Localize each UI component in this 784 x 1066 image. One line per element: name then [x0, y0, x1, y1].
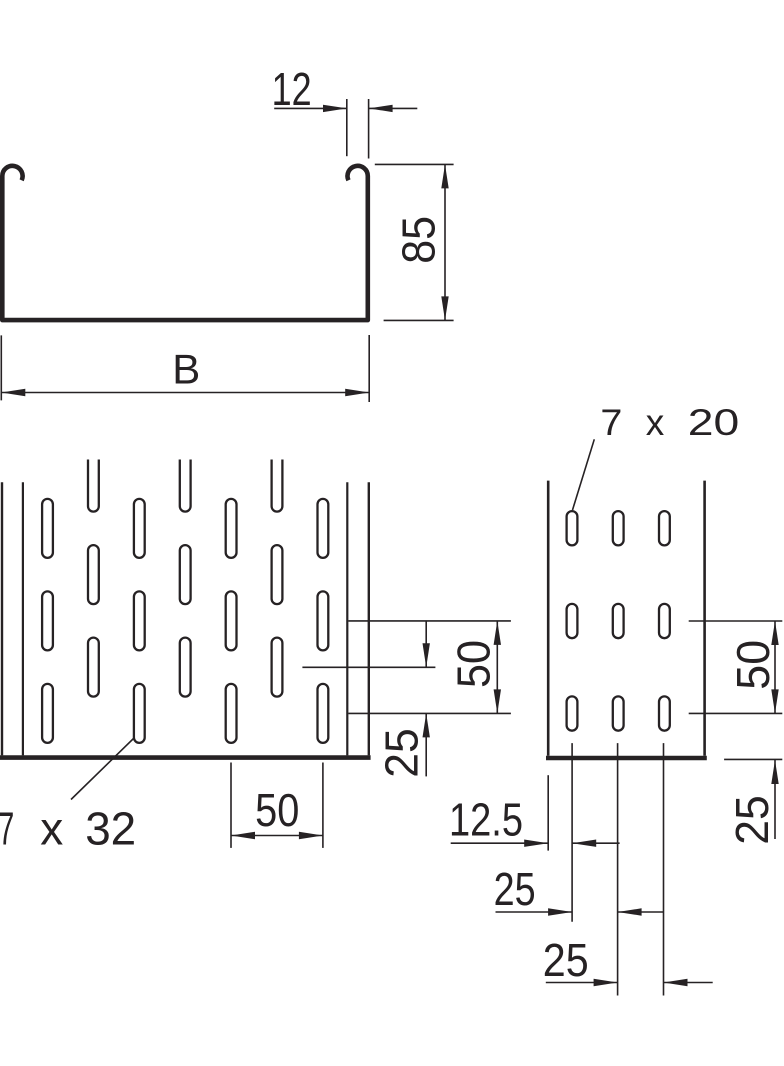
fig3 50 arrowhead down: [771, 689, 778, 713]
arrowhead up 85: [441, 164, 448, 188]
fig2 25-dim arrowhead down: [423, 643, 430, 667]
slot 7x32 colB1 row1: [88, 545, 99, 604]
slot 7x32 colB3 row2: [272, 638, 283, 697]
slot 7x32 colA1 row1: [42, 499, 53, 558]
svg-text:25: 25: [726, 795, 778, 845]
left extension line of B dim: [0, 335, 2, 400]
fig3 left edge: [547, 481, 550, 756]
fig2 right bend line: [346, 482, 348, 755]
slot 7x32 colA1 row3: [42, 684, 53, 743]
fig2 50-dim line: [496, 621, 498, 714]
dim line of B: [1, 392, 369, 394]
dim line of 85: [444, 164, 446, 320]
slot 7x32 colA2 row1: [134, 499, 145, 558]
extension line right of 12 dim: [368, 99, 370, 159]
fig2 left outer edge: [1, 482, 3, 755]
fig2 centerline of offset slot row: [302, 666, 435, 668]
slot 7x20 col2 row1: [613, 511, 624, 545]
slot 7x32 colA3 row1: [226, 499, 237, 558]
fig3 50-dim line: [774, 621, 776, 713]
fig2 25-dim upper shaft: [425, 621, 427, 667]
12.5-dim right shaft: [572, 842, 619, 844]
slot 7x20 col3 row3: [659, 696, 670, 730]
fig3 ext line slot col3: [663, 743, 665, 995]
svg-text:50: 50: [447, 640, 499, 688]
fig3 ext line slot col1: [571, 743, 573, 922]
slot 7x32 colA1 row2: [42, 591, 53, 650]
slot 7x20 col1 row3: [567, 696, 578, 730]
fig2 bottom 50 arrowhead right: [299, 832, 323, 839]
svg-text:25: 25: [376, 728, 428, 778]
25-dim-2 right shaft: [664, 982, 713, 984]
25-dim-1 arrowhead left: [618, 908, 642, 915]
slot 7x32 colB3 row1: [272, 545, 283, 604]
fig2 bottom ext line col7: [322, 763, 324, 848]
fig3 50 arrowhead up: [771, 621, 778, 645]
cable tray cross-section profile (U-channel with curled lips): [2, 166, 368, 320]
slot 7x32 colA3 row3: [226, 684, 237, 743]
fig2 25-dim arrowhead up: [423, 713, 430, 737]
fig3 bottom edge: [546, 756, 707, 761]
12.5 arrowhead right: [524, 840, 548, 847]
svg-text:x: x: [646, 402, 665, 443]
slot 7x32 colA2 row2: [134, 591, 145, 650]
fig3 right edge: [703, 481, 706, 756]
fig2 right outer edge: [368, 482, 370, 755]
svg-text:12.5: 12.5: [449, 794, 523, 846]
25-dim-1 left shaft: [496, 911, 572, 913]
25-dim-1 right shaft: [618, 911, 664, 913]
svg-text:7: 7: [0, 802, 14, 854]
fig2 extension line slot-row2 centerline: [348, 620, 511, 622]
fig2 bottom 50-dim line: [231, 835, 323, 837]
slot 7x20 col2 row2: [613, 604, 624, 638]
arrowhead left toward 12 right limit: [369, 105, 393, 112]
top extension line of 85 dim: [375, 163, 454, 165]
arrowhead right toward 12 left limit: [323, 105, 347, 112]
fig2 25-dim lower shaft: [425, 713, 427, 776]
fig3 25 arrowhead up: [771, 760, 778, 784]
fig3 ext line slot col2: [617, 743, 619, 995]
slot 7x32 colB2 row2: [180, 638, 191, 697]
fig3 bottom-edge ext line right: [724, 758, 782, 760]
fig2 left bend line: [22, 482, 24, 755]
fig3 25-dim shaft: [774, 760, 776, 839]
arrowhead down 85: [441, 296, 448, 320]
slot 7x20 col1 row2: [567, 604, 578, 638]
slot 7x20 col2 row3: [613, 696, 624, 730]
fig2 extension line slot-row3 centerline: [348, 712, 511, 714]
25-dim-2 left shaft: [546, 982, 617, 984]
slot 7x32 colB1 row2: [88, 638, 99, 697]
svg-text:32: 32: [85, 802, 136, 854]
25-dim-1 arrowhead right: [548, 908, 572, 915]
svg-text:25: 25: [494, 863, 536, 915]
svg-text:25: 25: [543, 934, 589, 986]
fig3 ext line row3 centerline: [689, 712, 783, 714]
fig2 bottom 50 arrowhead left: [231, 832, 255, 839]
slot 7x32 colA4 row1: [318, 499, 329, 558]
dim line left segment of 12: [274, 107, 346, 109]
fig2 bottom edge: [0, 755, 371, 760]
slot 7x32 colA2 row3: [134, 684, 145, 743]
fig3 ext line left edge: [547, 775, 549, 850]
leader line to 7x32 slot: [71, 739, 134, 800]
fig3 ext line row2 centerline: [689, 620, 783, 622]
12.5-dim left shaft: [451, 842, 548, 844]
slot 7x32 colA4 row3: [318, 684, 329, 743]
svg-text:x: x: [40, 802, 63, 854]
fig2 50-dim arrowhead up: [494, 621, 501, 645]
arrowhead right B: [345, 389, 369, 396]
slot 7x20 col3 row2: [659, 604, 670, 638]
slot 7x32 colB1 row0 (cut at top): [88, 460, 99, 512]
12.5 arrowhead left: [572, 840, 596, 847]
svg-text:50: 50: [727, 640, 779, 690]
right extension line of B dim: [368, 335, 370, 402]
slot 7x32 colB2 row0 (cut at top): [180, 460, 191, 512]
25-dim-2 arrowhead right: [594, 979, 618, 986]
25-dim-2 arrowhead left: [664, 979, 688, 986]
svg-text:85: 85: [393, 216, 445, 264]
dim line right segment of 12: [369, 107, 417, 109]
fig2 50-dim arrowhead down: [494, 689, 501, 713]
svg-text:B: B: [172, 346, 200, 393]
svg-text:20: 20: [688, 402, 740, 443]
arrowhead left B: [1, 389, 25, 396]
extension line left of 12 dim: [346, 99, 348, 156]
leader line to 7x20 slot: [573, 439, 595, 510]
slot 7x20 col1 row1: [567, 511, 578, 545]
slot 7x32 colA4 row2: [318, 591, 329, 650]
svg-text:50: 50: [255, 784, 299, 836]
svg-text:7: 7: [600, 402, 622, 443]
fig2 bottom ext line col5: [230, 763, 232, 848]
slot 7x32 colA3 row2: [226, 591, 237, 650]
slot 7x32 colB3 row0 (cut at top): [272, 460, 283, 512]
svg-text:12: 12: [272, 63, 312, 115]
slot 7x20 col3 row1: [659, 511, 670, 545]
slot 7x32 colB2 row1: [180, 545, 191, 604]
bottom extension line of 85 dim: [384, 319, 454, 321]
